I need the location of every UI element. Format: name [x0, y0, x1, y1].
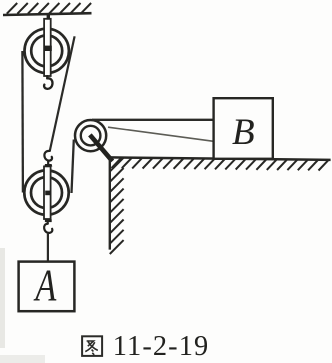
rope lower faint segment to block B: [108, 127, 214, 141]
table hatching: [112, 158, 329, 171]
wall vertical line: [109, 157, 111, 249]
movable pulley P2 bottom hook: [44, 219, 52, 233]
caption hanzi tu (figure) glyph: [82, 336, 102, 356]
movable pulley P2 strap: [44, 166, 51, 219]
rope right vertical segment to corner pulley: [72, 140, 74, 194]
table surface line: [110, 157, 331, 160]
fixed pulley P1 strap: [44, 15, 51, 76]
block B: [214, 98, 273, 159]
rope left vertical segment: [21, 51, 24, 193]
corner pulley P3 axle bracket: [90, 135, 113, 161]
movable pulley P2 wheel: [24, 170, 68, 214]
svg-text:B: B: [232, 112, 255, 153]
svg-text:A: A: [33, 260, 57, 311]
svg-text:11-2-19: 11-2-19: [113, 331, 210, 362]
caption figure number text: [113, 331, 210, 362]
movable pulley P2 axle nut: [45, 191, 51, 196]
movable pulley P2 top hook: [44, 151, 52, 167]
rope diagonal segment to movable pulley hook: [50, 36, 75, 151]
corner pulley P3 wheel: [75, 120, 106, 151]
block A: [19, 260, 75, 311]
fixed pulley P1 hook: [44, 76, 52, 89]
wall hatching: [110, 158, 124, 254]
rope horizontal segment to block B: [92, 119, 214, 121]
rope segment to block A: [47, 234, 49, 262]
ceiling line: [3, 13, 92, 15]
scan smudge left edge: [0, 248, 45, 363]
fixed pulley P1 wheel: [25, 29, 69, 73]
ceiling hatching: [7, 3, 91, 14]
fixed pulley P1 axle nut: [44, 46, 52, 51]
